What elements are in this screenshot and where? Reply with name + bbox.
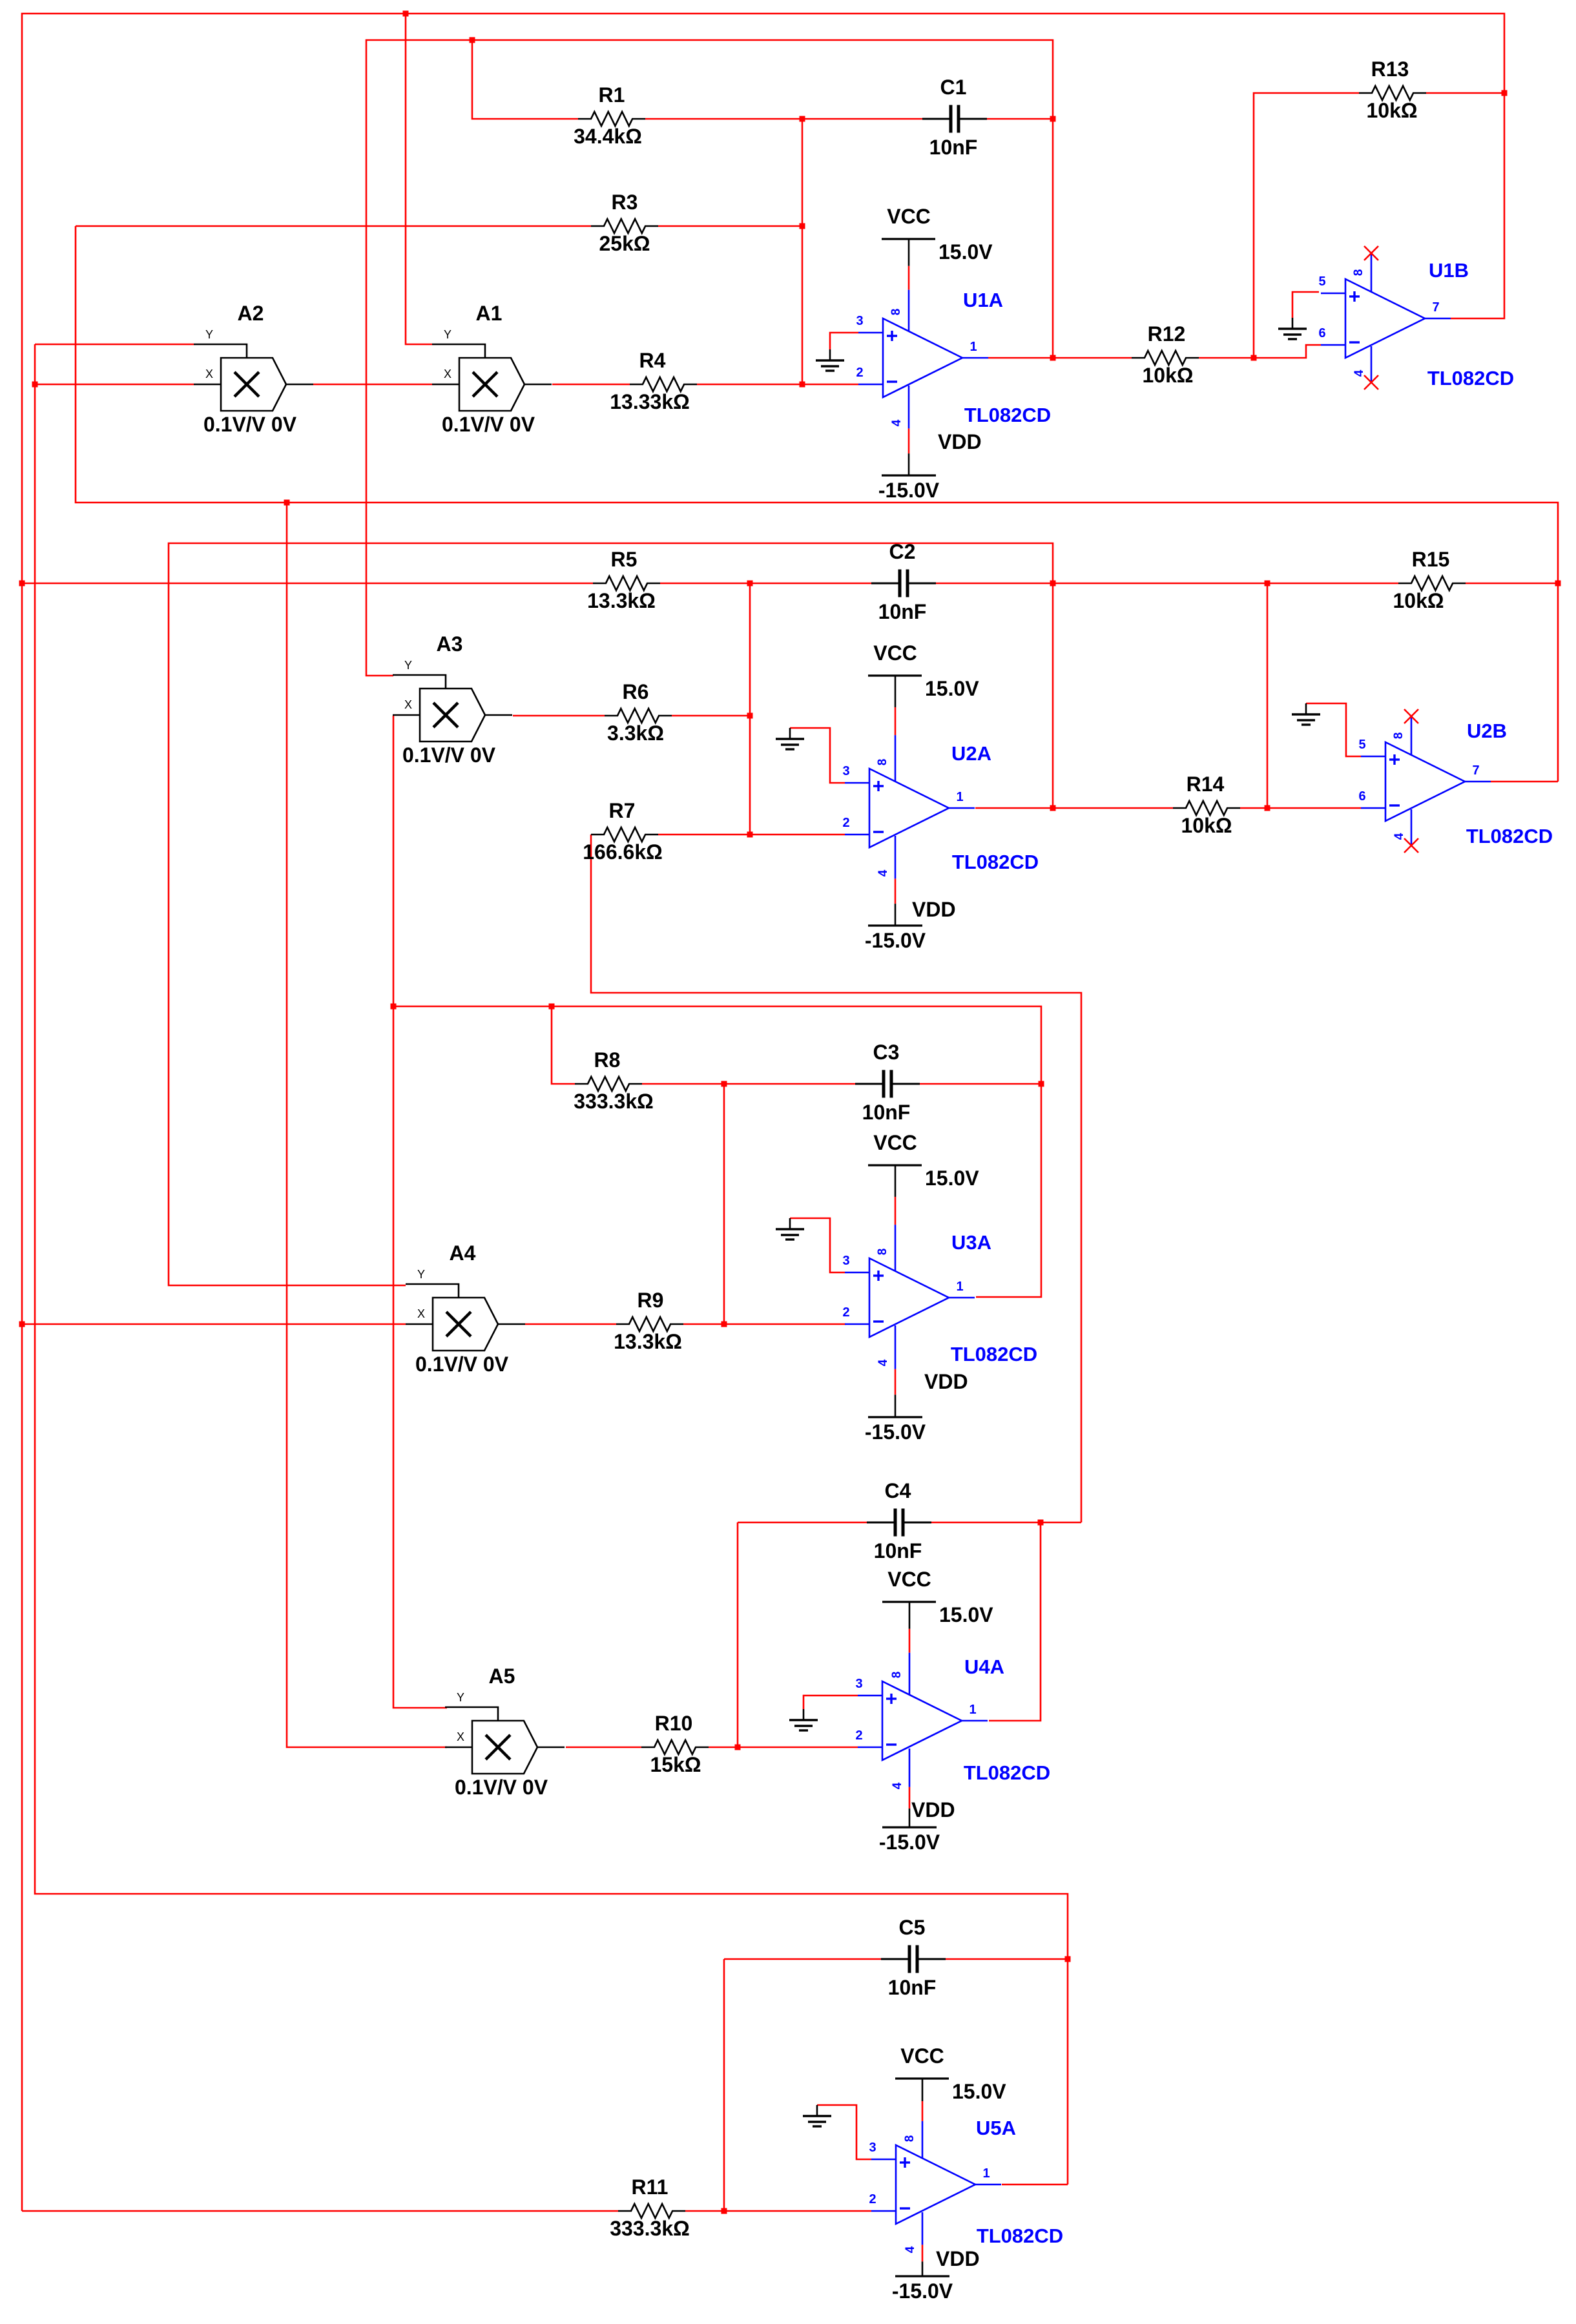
op-amp U3A [842,1254,975,1337]
junction 28 [735,1745,741,1750]
svg-text:R5: R5 [611,548,638,571]
ground U2B [1292,703,1361,756]
svg-text:TL082CD: TL082CD [952,851,1039,873]
capacitor C5 [881,1916,946,1999]
svg-text:U2B: U2B [1467,720,1507,742]
svg-text:C1: C1 [940,76,967,99]
svg-text:4: 4 [876,869,890,877]
wire summing node column U1A [802,119,804,384]
svg-text:R1: R1 [599,83,625,107]
svg-text:0.1V/V 0V: 0.1V/V 0V [455,1776,548,1799]
resistor R12 [1132,322,1199,387]
svg-text:R4: R4 [639,349,666,372]
svg-text:-15.0V: -15.0V [892,2279,953,2303]
svg-text:R3: R3 [612,191,638,214]
wire R1 right to node [645,118,802,120]
capacitor C2 [871,540,936,623]
svg-text:U2A: U2A [951,742,991,765]
wire A2 X row [35,384,194,386]
VCC supply U3A [868,1131,979,1271]
svg-text:34.4kΩ: 34.4kΩ [574,125,642,148]
svg-text:U3A: U3A [951,1231,991,1254]
svg-text:5: 5 [1318,275,1325,289]
svg-text:2: 2 [842,1305,849,1320]
wire C1 right [987,118,1053,120]
svg-text:0.1V/V 0V: 0.1V/V 0V [442,413,535,436]
svg-text:25kΩ: 25kΩ [599,232,650,255]
svg-text:VDD: VDD [924,1370,968,1393]
wire R5 row left [22,583,593,585]
VDD supply U4A [879,1748,955,1854]
resistor R5 [587,548,660,612]
svg-text:4: 4 [1393,833,1406,840]
ground U1B [1278,292,1319,339]
svg-text:TL082CD: TL082CD [951,1343,1037,1365]
wire R4 to summing node [697,384,802,386]
svg-text:A2: A2 [238,302,264,325]
wire U4A out column [989,1522,1041,1721]
svg-text:13.33kΩ: 13.33kΩ [610,390,690,413]
svg-text:-15.0V: -15.0V [879,1831,940,1854]
wire summing node column U3A [723,1084,725,1324]
svg-text:3: 3 [869,2141,876,2155]
svg-text:R11: R11 [632,2175,669,2199]
svg-text:VDD: VDD [911,1798,955,1821]
svg-text:4: 4 [904,2246,917,2253]
svg-text:Y: Y [404,659,412,672]
junction 23 [721,1081,727,1087]
resistor R4 [610,349,697,413]
svg-text:6: 6 [1318,326,1325,340]
op-amp U1A [856,314,988,397]
svg-text:5: 5 [1358,738,1365,752]
wire A1 out to R4 [552,384,630,386]
resistor R11 [610,2175,690,2240]
wire R11 to node [685,2210,724,2212]
wire R13 left column [1254,93,1359,358]
wire R7 left loop [591,835,1081,1522]
VDD supply U3A [865,1325,968,1444]
wire A4 X row [22,1323,406,1325]
wire A3 out to R6 [513,715,605,717]
svg-text:U4A: U4A [964,1655,1004,1678]
svg-text:15.0V: 15.0V [938,240,993,264]
svg-text:4: 4 [890,419,904,426]
wire C5 to R11 column [723,1959,725,2211]
wire C5 row left [724,1958,881,1960]
svg-text:4: 4 [876,1359,890,1366]
junction 25 [19,1322,25,1327]
wire node to U3A pin2 [724,1323,845,1325]
resistor R6 [605,680,672,745]
junction 13 [747,581,753,586]
wire U3A output rail [393,716,1041,1297]
svg-text:10nF: 10nF [874,1539,922,1562]
wire C2 right [936,583,1053,585]
svg-text:R6: R6 [623,680,649,703]
ground U5A [803,2105,871,2159]
junction 29 [721,2208,727,2214]
svg-text:8: 8 [1392,732,1405,740]
svg-text:VCC: VCC [873,641,917,665]
wire U1A out to R12 [988,357,1132,359]
junction 20 [1265,805,1270,811]
svg-text:A3: A3 [437,632,463,656]
svg-text:10nF: 10nF [862,1101,911,1124]
wire R15 left column [1267,583,1269,808]
junction 5 [800,223,805,229]
svg-text:Y: Y [205,328,213,341]
svg-text:R7: R7 [609,799,636,822]
svg-text:10kΩ: 10kΩ [1181,814,1232,837]
wire C2 row to R15 [1053,583,1398,585]
svg-text:3: 3 [856,314,863,328]
wire R3 right to node [658,225,802,227]
junction 17 [747,713,753,719]
svg-text:15.0V: 15.0V [925,1167,979,1190]
wire R14 to U2B pin6 [1240,807,1361,809]
op-amp U2B [1358,738,1491,821]
svg-text:R14: R14 [1187,773,1225,796]
multiplier A5 [445,1665,565,1799]
wire A2 out to A1 X [313,384,432,386]
svg-text:VCC: VCC [887,1568,931,1591]
svg-text:10nF: 10nF [929,136,978,159]
wire R11 row [22,2210,618,2212]
wire A2 Y row [35,344,194,346]
svg-text:10kΩ: 10kΩ [1393,589,1444,612]
multiplier A4 [406,1241,525,1376]
svg-text:R15: R15 [1412,548,1450,571]
svg-text:15.0V: 15.0V [952,2080,1006,2103]
junction 26 [721,1322,727,1327]
svg-text:U1A: U1A [963,289,1003,311]
wire A4 out to R9 [525,1323,616,1325]
svg-text:C2: C2 [889,540,916,563]
resistor R3 [591,191,658,255]
wire A2 X input [35,344,1068,2184]
wire node X feedback column [76,226,1558,782]
svg-text:13.3kΩ: 13.3kΩ [614,1330,682,1353]
junction 7 [800,382,805,388]
unconnected power pins U1B [1352,246,1378,389]
wire R5 to node [660,583,871,585]
VDD supply U2A [865,836,956,952]
wire C1 left [802,118,922,120]
svg-text:0.1V/V 0V: 0.1V/V 0V [415,1353,509,1376]
svg-text:10nF: 10nF [878,600,927,623]
resistor R14 [1173,773,1240,837]
svg-text:333.3kΩ: 333.3kΩ [574,1090,654,1113]
svg-text:2: 2 [855,1728,862,1743]
svg-text:8: 8 [903,2135,917,2142]
multiplier A2 [194,302,313,436]
ground U2A [776,728,845,783]
wire R13 right [1426,92,1504,94]
svg-text:Y: Y [417,1268,425,1281]
svg-text:15.0V: 15.0V [939,1603,993,1626]
op-amp U5A [869,2141,1001,2224]
svg-text:VCC: VCC [900,2044,944,2068]
wire R9 to node [683,1323,724,1325]
junction 9 [1251,355,1257,361]
op-amp U1B [1318,275,1451,358]
wire C3 right [920,1083,1041,1085]
wire C4 to R10 column [737,1522,739,1747]
VDD supply U1A [878,386,982,502]
svg-text:1: 1 [956,790,963,804]
capacitor C1 [922,76,987,159]
junction 19 [1050,805,1056,811]
svg-text:1: 1 [969,340,977,354]
junction 14 [1050,581,1056,586]
wire U1A output rail [366,40,1053,676]
wire R1 left feed [472,40,578,119]
svg-text:R10: R10 [655,1712,693,1735]
svg-text:VDD: VDD [938,430,982,453]
resistor R7 [583,799,663,864]
ground U4A [789,1696,858,1730]
svg-text:X: X [205,368,213,380]
svg-text:C4: C4 [885,1479,911,1502]
svg-text:7: 7 [1472,763,1479,778]
svg-text:4: 4 [1353,369,1366,377]
wire summing node column U2A [749,583,751,835]
svg-text:2: 2 [869,2192,876,2206]
junction 6 [32,382,38,388]
svg-text:VCC: VCC [873,1131,917,1154]
wire A5 X feed [287,503,447,1747]
svg-text:3: 3 [842,1254,849,1268]
svg-text:15kΩ: 15kΩ [650,1753,701,1776]
wire R8 right to node [642,1083,855,1085]
wire R15 right [1466,583,1558,585]
multiplier A1 [432,302,552,436]
wire R10 to node [709,1747,738,1748]
wire R3 row [76,225,591,227]
VDD supply U5A [892,2212,980,2303]
op-amp U4A [855,1677,988,1760]
svg-text:TL082CD: TL082CD [977,2225,1063,2247]
multiplier A3 [393,632,512,767]
svg-text:1: 1 [956,1280,963,1294]
ground U1A [816,333,858,371]
svg-text:10kΩ: 10kΩ [1366,99,1417,122]
svg-text:Y: Y [444,328,451,341]
junction 16 [1555,581,1561,586]
svg-text:4: 4 [891,1782,904,1789]
junction 22 [549,1004,555,1010]
resistor R9 [614,1289,683,1353]
svg-text:2: 2 [842,816,849,830]
svg-text:A4: A4 [450,1241,476,1265]
svg-text:10kΩ: 10kΩ [1142,364,1193,387]
svg-text:R8: R8 [594,1048,621,1072]
wire R6 to node [672,715,750,717]
junction 30 [1065,1956,1071,1962]
wire node to U4A pin2 [738,1747,858,1748]
svg-text:166.6kΩ: 166.6kΩ [583,840,663,864]
resistor R8 [574,1048,654,1113]
svg-text:X: X [457,1730,464,1743]
svg-text:8: 8 [890,1672,904,1679]
ground U3A [776,1218,845,1272]
svg-text:X: X [444,368,451,380]
resistor R10 [641,1712,709,1776]
svg-text:333.3kΩ: 333.3kΩ [610,2217,690,2240]
svg-text:R13: R13 [1371,57,1409,81]
svg-text:6: 6 [1358,789,1365,804]
wire R8 left drop [552,1006,575,1084]
wire C4 row left [738,1522,867,1524]
svg-text:8: 8 [1352,269,1365,276]
junction 18 [747,832,753,838]
junction 1 [403,11,409,17]
svg-text:-15.0V: -15.0V [878,479,940,502]
junction 10 [1502,90,1508,96]
svg-text:3: 3 [842,764,849,778]
junction 21 [391,1004,397,1010]
VCC supply U1A [882,205,993,331]
svg-text:TL082CD: TL082CD [964,1761,1050,1784]
svg-text:C3: C3 [873,1041,900,1064]
wire A5 Y drop [393,1006,447,1708]
junction 15 [1265,581,1270,586]
svg-text:A1: A1 [476,302,503,325]
svg-text:VDD: VDD [936,2247,980,2270]
svg-text:8: 8 [876,1249,889,1256]
svg-text:VCC: VCC [887,205,931,228]
wire U2B output [1491,781,1558,783]
resistor R1 [574,83,645,148]
svg-text:13.3kΩ: 13.3kΩ [587,589,656,612]
wire A5 out to R10 [566,1747,641,1748]
svg-text:8: 8 [889,309,903,316]
svg-text:C5: C5 [899,1916,926,1939]
svg-text:7: 7 [1432,300,1439,315]
unconnected power pins U2B [1392,709,1418,853]
svg-text:0.1V/V 0V: 0.1V/V 0V [203,413,297,436]
wire U2A output rail [169,543,1053,1285]
wire node to U1A pin2 [802,384,858,386]
svg-text:R12: R12 [1148,322,1186,346]
VCC supply U2A [868,641,979,782]
junction 8 [1050,355,1056,361]
svg-text:U5A: U5A [976,2117,1016,2139]
svg-text:A5: A5 [489,1665,515,1688]
svg-text:3: 3 [855,1677,862,1691]
svg-text:TL082CD: TL082CD [1466,825,1553,847]
svg-text:VDD: VDD [912,898,956,921]
junction 3 [800,116,805,122]
svg-text:1: 1 [982,2166,990,2181]
wire top rail branch to A1 Y [406,14,432,344]
wire R7 to node [658,834,750,836]
wire node to U2A pin2 [750,834,845,836]
wire U5A output [1002,2184,1068,2186]
svg-text:Y: Y [457,1691,464,1704]
capacitor C3 [855,1041,920,1124]
svg-text:0.1V/V 0V: 0.1V/V 0V [402,743,496,767]
junction 24 [1039,1081,1044,1087]
svg-text:1: 1 [969,1703,976,1717]
junction 2 [470,37,475,43]
svg-text:8: 8 [876,759,889,766]
junction 4 [1050,116,1056,122]
junction 27 [1038,1520,1044,1526]
wire C5 right [946,1958,1068,1960]
svg-text:2: 2 [856,366,863,380]
wire U2A out to R14 [975,807,1173,809]
svg-text:-15.0V: -15.0V [865,1420,926,1444]
svg-text:X: X [404,698,412,711]
VCC supply U4A [882,1568,993,1694]
svg-text:15.0V: 15.0V [925,677,979,700]
junction 11 [284,500,290,506]
svg-text:TL082CD: TL082CD [964,404,1051,426]
svg-text:3.3kΩ: 3.3kΩ [607,721,664,745]
resistor R15 [1393,548,1466,612]
op-amp U2A [842,764,975,847]
svg-text:U1B: U1B [1429,259,1469,282]
svg-text:10nF: 10nF [888,1976,937,1999]
wire node to U5A pin2 [724,2210,871,2212]
svg-text:R9: R9 [638,1289,664,1312]
wire R12 to U1B pin6 [1199,345,1321,358]
svg-text:-15.0V: -15.0V [865,929,926,952]
svg-text:TL082CD: TL082CD [1427,367,1514,389]
svg-text:X: X [417,1307,425,1320]
junction 12 [19,581,25,586]
resistor R13 [1359,57,1426,122]
VCC supply U5A [895,2044,1006,2158]
capacitor C4 [867,1479,931,1562]
wire C4 right [931,1522,1081,1524]
